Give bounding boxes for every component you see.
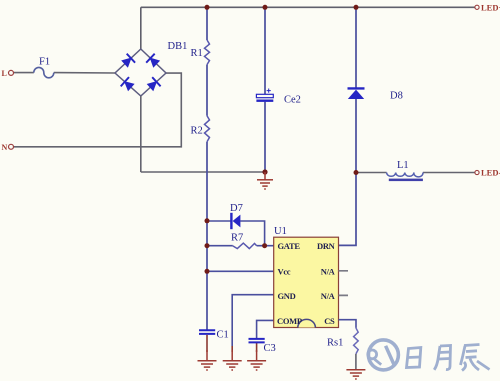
svg-text:N/A: N/A <box>321 267 336 277</box>
svg-text:GND: GND <box>278 291 296 301</box>
junction dot ground rail <box>262 169 267 174</box>
capacitor C3 <box>249 339 265 343</box>
svg-text:COMP: COMP <box>277 316 302 326</box>
wire D7 branch <box>207 221 265 246</box>
watermark logo tail <box>375 359 382 364</box>
svg-text:C3: C3 <box>264 343 276 354</box>
terminal LED+ <box>475 5 479 9</box>
svg-text:GATE: GATE <box>278 241 301 251</box>
bridge diode bottom-left <box>121 77 134 90</box>
wire R divider vertical <box>206 7 208 330</box>
junction dot D7 left <box>205 218 210 223</box>
wire N input <box>13 73 181 147</box>
ground under C1 <box>198 350 217 370</box>
svg-text:F1: F1 <box>39 57 50 68</box>
inductor L1 <box>387 173 423 182</box>
terminal L <box>9 70 14 75</box>
diode D7 <box>231 213 240 229</box>
wire Rs1 to ground <box>355 354 357 370</box>
watermark logo inner ring <box>368 350 377 359</box>
IC U1 <box>274 237 339 327</box>
resistor R7 <box>233 243 257 249</box>
watermark logo diagonal <box>386 346 395 367</box>
svg-text:LED-: LED- <box>481 168 500 178</box>
wire C3 to ground <box>256 342 258 352</box>
ground under C3 <box>247 350 266 370</box>
terminal LED- <box>475 170 479 174</box>
svg-text:D8: D8 <box>390 91 403 102</box>
ground under GND pin <box>223 350 242 370</box>
wire ground rail <box>141 171 265 173</box>
resistor Rs1 <box>354 328 359 354</box>
wire Ce2 vertical <box>264 7 266 172</box>
bridge diode bottom-right <box>148 77 161 90</box>
wire L input <box>13 72 115 74</box>
watermark char ri <box>407 348 421 368</box>
svg-text:DB1: DB1 <box>168 41 188 52</box>
bridge diode top-left <box>122 54 135 67</box>
svg-text:N/A: N/A <box>321 291 336 301</box>
svg-text:L1: L1 <box>397 160 409 171</box>
svg-text:Ce2: Ce2 <box>284 95 301 106</box>
wire GND <box>232 295 274 346</box>
svg-text:C1: C1 <box>217 330 229 341</box>
fuse F1 <box>34 67 54 77</box>
wire C1 to ground <box>206 335 208 352</box>
ground under Rs1 <box>346 370 365 379</box>
junction dot top R1 <box>205 5 210 10</box>
junction dot top Ce2 <box>263 5 268 10</box>
svg-text:LED+: LED+ <box>481 3 500 13</box>
junction dot D8 LED rail <box>354 170 359 175</box>
wire LED- rail <box>356 172 475 174</box>
svg-text:U1: U1 <box>274 226 287 237</box>
svg-text:CS: CS <box>324 316 335 326</box>
wire R7 branch <box>207 245 274 247</box>
wire D8 vertical <box>339 7 357 245</box>
wire CS to Rs1 <box>339 320 357 328</box>
wire COMP <box>257 320 274 338</box>
watermark logo ring <box>368 340 398 370</box>
junction dot gate node <box>262 243 267 248</box>
junction dot Vcc <box>205 269 210 274</box>
capacitor Ce2 <box>256 89 273 102</box>
resistor R2 <box>205 116 210 142</box>
svg-text:L: L <box>2 69 7 78</box>
ground at rectifier <box>257 172 273 189</box>
bridge DB1 diamond <box>115 49 166 96</box>
bridge diode top-right <box>146 54 159 67</box>
svg-text:Rs1: Rs1 <box>327 338 343 349</box>
U1 bottom notch <box>298 319 316 327</box>
wire bridge top vertical <box>140 7 142 49</box>
svg-text:Vcc: Vcc <box>278 267 291 277</box>
resistor R1 <box>205 40 210 65</box>
svg-text:DRN: DRN <box>317 241 336 251</box>
svg-text:N: N <box>2 143 8 152</box>
capacitor C1 <box>199 330 215 334</box>
wire N/A stubs <box>339 271 349 296</box>
svg-text:R2: R2 <box>191 126 203 137</box>
junction dot top D8 <box>354 5 359 10</box>
wire bridge bottom vertical <box>140 96 142 172</box>
svg-text:R7: R7 <box>231 233 243 244</box>
terminal N <box>9 144 14 149</box>
svg-text:R1: R1 <box>191 48 203 59</box>
watermark char yue <box>434 346 450 370</box>
junction dot R7 left <box>205 243 210 248</box>
watermark char chen <box>461 345 490 371</box>
diode D8 <box>348 88 365 99</box>
wire Vcc <box>207 270 274 272</box>
wire top rail <box>141 6 477 8</box>
svg-text:D7: D7 <box>230 203 243 214</box>
